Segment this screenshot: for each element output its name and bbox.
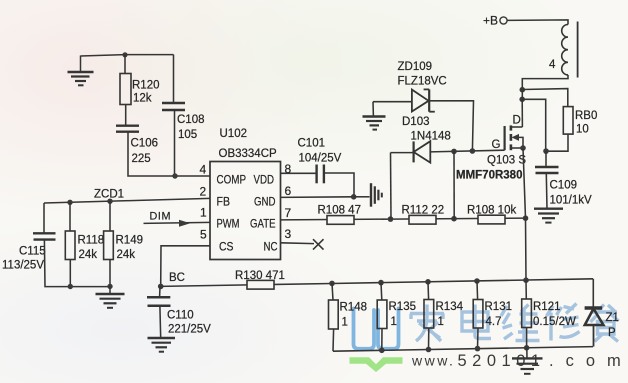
svg-text:3: 3 <box>285 227 292 241</box>
wire R149 bottom lead <box>109 260 111 287</box>
junction dot ZD109 node on gate line <box>470 148 476 154</box>
junction dot COMP node <box>172 173 177 178</box>
wire node D1 to RB0 <box>522 89 568 107</box>
wire R120 to C106 <box>125 105 127 126</box>
capacitor C115 <box>33 233 56 239</box>
svg-text:R108 10k: R108 10k <box>467 205 516 217</box>
wire D103 right to MOSFET gate <box>430 150 504 152</box>
ground G1 top-left <box>68 56 94 86</box>
svg-text:ZD109: ZD109 <box>398 61 433 73</box>
svg-text:CS: CS <box>219 240 234 254</box>
capacitor C108 <box>162 103 185 110</box>
svg-text:1: 1 <box>438 316 444 328</box>
svg-text:C110: C110 <box>167 310 194 322</box>
wire D103 left from anode vertical <box>391 152 414 154</box>
watermark url row <box>411 352 628 370</box>
svg-text:520101: 520101 <box>458 352 546 370</box>
wire GND pin6 <box>281 196 354 199</box>
svg-text:NC: NC <box>264 240 278 254</box>
resistor R108 47 <box>327 216 354 225</box>
svg-text:RB0: RB0 <box>575 110 597 122</box>
resistor R135 <box>380 283 383 300</box>
wire ZD109 anode to ground <box>372 102 374 117</box>
wire ZD109 left <box>373 101 412 103</box>
wire FB line <box>44 198 210 203</box>
svg-text:104/25V: 104/25V <box>299 153 342 165</box>
svg-text:C115: C115 <box>19 246 46 258</box>
zener diode ZD109 <box>412 89 435 111</box>
svg-text:1: 1 <box>391 316 397 328</box>
wire C115 down to bottom node <box>44 241 110 287</box>
channel segments <box>510 125 513 130</box>
resistor R149 <box>104 231 114 260</box>
svg-text:225: 225 <box>132 153 151 165</box>
wire +B to transformer <box>507 20 568 25</box>
resistor R148 <box>332 283 333 300</box>
svg-text:113/25V: 113/25V <box>2 260 44 272</box>
wire ground to node A <box>81 55 174 56</box>
junction dots on bottom rail <box>379 348 385 354</box>
svg-text:FB: FB <box>217 195 231 209</box>
wire MOSFET source down <box>523 148 526 280</box>
svg-text:C106: C106 <box>131 138 159 150</box>
svg-text:101/1kV: 101/1kV <box>550 195 593 207</box>
junction dot gate line right <box>523 215 529 221</box>
wire GATE pin7 line <box>281 218 526 220</box>
svg-text:.com: .com <box>549 352 628 370</box>
junction dot R108/R112 <box>388 216 394 222</box>
wire C106 to COMP line <box>128 133 210 177</box>
junction dot source on BC rail <box>523 277 529 283</box>
wire VDD pin8 to C101 <box>281 172 317 174</box>
IC U102 OB3334CP <box>210 162 281 260</box>
svg-text:D: D <box>513 115 521 127</box>
drain lead <box>511 126 523 128</box>
capacitor C106 <box>116 126 139 132</box>
svg-text:MMF70R380: MMF70R380 <box>456 170 522 182</box>
wire node D2 to C109 node <box>522 99 546 151</box>
svg-text:R149: R149 <box>116 235 144 247</box>
svg-text:R131: R131 <box>485 301 513 313</box>
gate bar <box>504 126 506 150</box>
svg-text:C109: C109 <box>550 180 578 192</box>
wire top corner down to C108 <box>173 55 175 103</box>
wire NC pin3 <box>281 242 315 245</box>
watermark chinese characters (approximated strokes) <box>410 304 619 342</box>
wire node A down to R120 <box>124 55 126 74</box>
ground under R149 <box>96 287 125 308</box>
svg-text:R118: R118 <box>78 235 105 247</box>
svg-text:R112 22: R112 22 <box>402 205 445 217</box>
junction dot R112/R108b <box>451 216 457 222</box>
wire CS pin5 <box>161 246 210 286</box>
resistor R131 <box>476 281 479 300</box>
svg-text:2: 2 <box>200 185 207 199</box>
arrow DIM <box>179 220 190 227</box>
wire BC rail to right <box>161 279 593 287</box>
resistor R108 10k <box>478 215 505 224</box>
junction dot D103/R112 node <box>451 149 457 155</box>
svg-text:4: 4 <box>549 59 556 71</box>
svg-text:105: 105 <box>178 129 197 141</box>
svg-text:U102: U102 <box>220 128 248 140</box>
wire R118 top lead <box>69 202 71 231</box>
capacitor C109 <box>535 167 559 173</box>
ground under C109 <box>534 209 563 223</box>
svg-text:0.15/2W: 0.15/2W <box>533 316 576 328</box>
terminal circle +B <box>500 17 507 24</box>
junction dot GND node <box>351 194 357 200</box>
svg-text:R130 471: R130 471 <box>235 270 285 282</box>
wire ZD109 right down to gate node <box>429 101 473 151</box>
wire C101 to GND node <box>324 173 354 197</box>
WATERMARK <box>350 304 628 373</box>
svg-text:OB3334CP: OB3334CP <box>219 148 278 160</box>
ground under ZD109 <box>363 117 386 130</box>
wire winding bottom to drain node <box>522 75 568 90</box>
diode D103 <box>414 141 431 162</box>
svg-text:D103: D103 <box>402 116 430 128</box>
junction dot R149 bottom <box>107 284 112 289</box>
svg-text:R134: R134 <box>436 301 464 313</box>
junction dot source <box>520 145 526 151</box>
resistor R130 <box>247 280 274 289</box>
wire down from D103 line to R112 node <box>453 151 455 218</box>
resistor RB0 <box>563 107 573 135</box>
body arrow <box>512 134 520 141</box>
ground sideways at GND node <box>354 183 382 207</box>
svg-text:R121: R121 <box>533 301 561 313</box>
wire FB node down to C115 <box>43 203 45 233</box>
svg-text:C101: C101 <box>298 138 326 150</box>
svg-text:6: 6 <box>285 184 292 198</box>
svg-text:24k: 24k <box>117 249 136 261</box>
wire R118 bottom lead <box>69 260 71 287</box>
wire C110 to ground <box>159 306 162 338</box>
wire C109 to ground <box>545 174 548 209</box>
svg-text:24k: 24k <box>79 249 98 261</box>
wire BC down to C110 <box>159 286 161 296</box>
svg-text:5: 5 <box>200 228 207 242</box>
resistor R112 22 <box>409 215 436 224</box>
svg-text:4.7: 4.7 <box>486 316 502 328</box>
book logo green base <box>350 357 403 372</box>
junction dot node D1 <box>520 87 526 93</box>
svg-text:VDD: VDD <box>254 173 275 187</box>
svg-text:1: 1 <box>200 206 207 220</box>
svg-text:1: 1 <box>342 317 348 329</box>
svg-text:R135: R135 <box>389 301 417 313</box>
capacitor C110 <box>147 297 171 305</box>
svg-text:PWM: PWM <box>217 217 240 231</box>
svg-text:GATE: GATE <box>250 217 276 231</box>
svg-text:12k: 12k <box>133 93 152 105</box>
wire DIM to PWM <box>144 222 211 223</box>
svg-text:221/25V: 221/25V <box>168 324 211 336</box>
junction dot C109 node <box>543 148 549 154</box>
svg-text:C108: C108 <box>177 114 205 126</box>
svg-text:P: P <box>608 327 616 339</box>
source lead <box>511 147 523 149</box>
wire R149 top lead <box>109 201 111 231</box>
svg-text:Q103 S: Q103 S <box>487 155 526 167</box>
resistor R134 <box>427 282 430 300</box>
junction dot node D2 <box>519 97 525 103</box>
capacitor C101 <box>317 165 324 184</box>
junction dots on BC rail <box>329 281 335 287</box>
resistor R120 <box>120 74 131 105</box>
book logo blue pages <box>354 309 399 349</box>
svg-text:www.: www. <box>411 353 455 369</box>
svg-text:R148: R148 <box>340 302 368 314</box>
svg-text:FLZ18VC: FLZ18VC <box>398 76 447 88</box>
wire RB0 bottom to C109 node <box>546 134 568 151</box>
svg-text:4: 4 <box>200 163 207 177</box>
svg-text:G: G <box>492 139 501 151</box>
svg-text:R108 47: R108 47 <box>318 205 361 217</box>
wire C108 down to COMP line <box>174 111 176 176</box>
junction dot BC node <box>158 284 164 290</box>
diode Z1 right <box>585 279 604 347</box>
svg-text:7: 7 <box>285 206 292 220</box>
transformer winding 4 <box>562 22 578 78</box>
X mark at NC <box>313 239 324 249</box>
wire D1 to D2 <box>521 90 523 100</box>
junction dot R118 top <box>67 200 72 205</box>
svg-text:BC: BC <box>169 272 185 284</box>
ground under C110 <box>148 338 176 352</box>
svg-text:Z1: Z1 <box>606 312 619 324</box>
wire D103 cathode left vertical down <box>390 153 393 220</box>
resistor R118 <box>65 231 75 260</box>
svg-text:COMP: COMP <box>217 173 247 187</box>
svg-text:+B: +B <box>483 14 498 28</box>
wire node D2 down to drain <box>521 99 523 127</box>
MOSFET Q103 <box>456 115 526 182</box>
wire C109 node down <box>545 151 547 166</box>
svg-text:R120: R120 <box>132 80 160 92</box>
svg-text:DIM: DIM <box>150 211 172 223</box>
bottom rail wire <box>333 347 593 352</box>
svg-text:GND: GND <box>254 195 276 209</box>
junction dot R118 bottom <box>68 284 73 289</box>
resistor R121 <box>525 280 527 299</box>
ground under bottom rail <box>512 348 543 374</box>
junction dot R149 top <box>107 199 112 204</box>
node A junction dot <box>122 52 127 57</box>
svg-text:10: 10 <box>576 124 589 136</box>
